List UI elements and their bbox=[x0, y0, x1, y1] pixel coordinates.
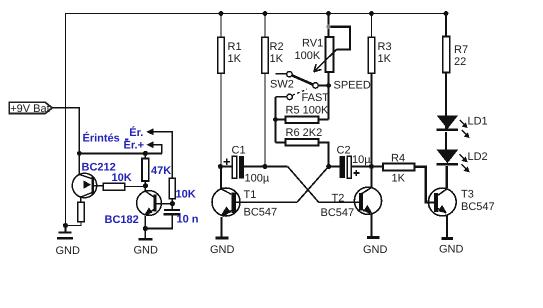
node touch bus left bbox=[77, 151, 82, 156]
svg-text:1K: 1K bbox=[270, 53, 284, 65]
svg-text:R5 100K: R5 100K bbox=[286, 104, 329, 116]
arrows LD2 bbox=[460, 154, 470, 172]
transistor T1 BC547 bbox=[212, 167, 240, 237]
wire cross diagonal C1 to T2 bbox=[288, 167, 319, 203]
svg-text:GND: GND bbox=[210, 244, 235, 256]
wire left rail bbox=[65, 14, 67, 227]
svg-text:1K: 1K bbox=[228, 53, 242, 65]
ground T3 bbox=[439, 237, 464, 255]
svg-text:100K: 100K bbox=[295, 50, 321, 62]
node RV1 top bbox=[326, 11, 331, 16]
ground T2 bbox=[363, 236, 388, 256]
switch SW2 bbox=[276, 72, 329, 100]
svg-text:22: 22 bbox=[454, 56, 466, 68]
svg-text:R7: R7 bbox=[454, 44, 468, 56]
label RV1 100K bbox=[295, 38, 324, 63]
diode LD1 bbox=[437, 115, 459, 150]
resistor R6 bbox=[276, 139, 329, 166]
wire touch bus bbox=[79, 152, 162, 154]
svg-text:BC547: BC547 bbox=[461, 201, 495, 213]
resistor R7 bbox=[443, 14, 450, 116]
capacitor 10n bbox=[145, 204, 180, 229]
wire T1 base bbox=[236, 201, 297, 203]
transistor Q2 BC182 bbox=[137, 186, 173, 229]
svg-text:T1: T1 bbox=[244, 189, 257, 201]
svg-text:BC547: BC547 bbox=[321, 207, 355, 219]
potentiometer RV1 bbox=[314, 14, 350, 85]
resistor R1 bbox=[218, 14, 225, 167]
resistor 10K vertical bbox=[169, 178, 175, 204]
resistor R4 bbox=[372, 163, 434, 202]
svg-text:BC182: BC182 bbox=[105, 214, 139, 226]
resistor R3 bbox=[368, 14, 375, 167]
label R1 1K bbox=[228, 41, 242, 65]
flag +9V Bat bbox=[9, 102, 52, 115]
svg-text:SPEED: SPEED bbox=[334, 79, 371, 91]
node C2 left bbox=[326, 164, 331, 169]
node BC182 collector bbox=[143, 183, 148, 188]
svg-text:R1: R1 bbox=[228, 41, 242, 53]
ground BC182 bbox=[134, 229, 159, 257]
wire Er. sense bbox=[146, 128, 172, 178]
node R7 top bbox=[444, 11, 449, 16]
svg-text:C1: C1 bbox=[232, 145, 246, 157]
wire C1 row bbox=[221, 165, 288, 167]
wire T2 base bbox=[319, 201, 359, 203]
resistor 10K horizontal bbox=[103, 183, 145, 190]
wire cross diagonal C2 to T1 bbox=[297, 167, 329, 203]
svg-text:47K: 47K bbox=[151, 165, 171, 177]
svg-text:1K: 1K bbox=[392, 172, 406, 184]
svg-text:10 n: 10 n bbox=[177, 214, 199, 226]
node T2 collector bbox=[369, 164, 374, 169]
svg-text:+9V Bat: +9V Bat bbox=[10, 103, 49, 115]
node battery gnd bbox=[63, 223, 68, 228]
svg-text:GND: GND bbox=[363, 244, 388, 256]
transistor T2 BC547 bbox=[354, 167, 381, 236]
wire +9V feed bbox=[52, 108, 79, 153]
svg-text:R4: R4 bbox=[391, 153, 405, 165]
node R2 top bbox=[263, 11, 268, 16]
svg-text:FAST: FAST bbox=[302, 92, 330, 104]
resistor R5 bbox=[276, 116, 329, 123]
node 47K top bbox=[143, 151, 148, 156]
node R5 left bbox=[273, 117, 278, 122]
label R7 22 bbox=[454, 44, 468, 68]
svg-text:R3: R3 bbox=[378, 41, 392, 53]
label R2 1K bbox=[270, 41, 284, 65]
svg-text:LD2: LD2 bbox=[468, 151, 488, 163]
node BC182 base bbox=[170, 201, 175, 206]
label dash after Erintes bbox=[125, 139, 128, 141]
wire top supply rail bbox=[65, 13, 446, 15]
node SPEED bbox=[326, 83, 331, 88]
svg-text:GND: GND bbox=[134, 245, 159, 257]
svg-text:R2: R2 bbox=[270, 41, 284, 53]
transistor T3 BC547 bbox=[428, 188, 456, 237]
node BC182 emitter bbox=[143, 226, 148, 231]
svg-text:GND: GND bbox=[56, 245, 81, 257]
resistor emitter BC212 bbox=[66, 197, 85, 225]
svg-text:10K: 10K bbox=[112, 172, 132, 184]
capacitor C2 bbox=[329, 156, 372, 178]
wire FAST bus bbox=[275, 97, 277, 143]
ground T1 bbox=[210, 236, 235, 256]
node R3 top bbox=[369, 11, 374, 16]
svg-text:GND: GND bbox=[439, 243, 464, 255]
svg-text:BC547: BC547 bbox=[244, 206, 278, 218]
svg-text:RV1: RV1 bbox=[302, 38, 323, 50]
wire Er.+ sense bbox=[146, 141, 161, 153]
node R1 top bbox=[219, 11, 224, 16]
svg-text:C2: C2 bbox=[337, 145, 351, 157]
resistor 47K bbox=[142, 153, 149, 185]
label R3 1K bbox=[378, 41, 392, 65]
diode LD2 bbox=[437, 150, 459, 188]
resistor R2 bbox=[262, 14, 269, 167]
node C1 left bbox=[218, 164, 223, 169]
ground battery bbox=[56, 226, 81, 258]
svg-text:10µ: 10µ bbox=[352, 154, 371, 166]
arrows LD1 bbox=[460, 120, 470, 138]
svg-text:10K: 10K bbox=[176, 189, 196, 201]
transistor Q1 BC212 bbox=[72, 153, 103, 197]
svg-text:100µ: 100µ bbox=[245, 173, 270, 185]
svg-text:Ér.: Ér. bbox=[129, 126, 143, 139]
capacitor C1 bbox=[224, 156, 245, 178]
svg-text:1K: 1K bbox=[378, 53, 392, 65]
svg-text:LD1: LD1 bbox=[468, 115, 488, 127]
wire SPEED to R5 bbox=[328, 86, 330, 120]
node R2 bottom bbox=[262, 164, 267, 169]
svg-text:Ér.+: Ér.+ bbox=[124, 139, 145, 152]
svg-text:SW2: SW2 bbox=[270, 79, 294, 91]
svg-text:R6 2K2: R6 2K2 bbox=[286, 127, 323, 139]
svg-text:T3: T3 bbox=[461, 188, 474, 200]
svg-text:T2: T2 bbox=[332, 193, 345, 205]
svg-text:Érintés: Érintés bbox=[83, 131, 120, 144]
